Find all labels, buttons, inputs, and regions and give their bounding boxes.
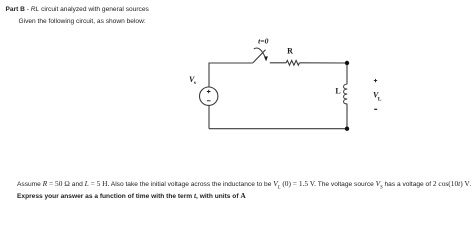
svg-text:L: L — [335, 87, 340, 96]
resistor R — [286, 60, 299, 65]
wire right top segment — [346, 63, 348, 84]
subtitle line — [19, 18, 146, 25]
wire bottom segment — [209, 128, 347, 130]
title line — [6, 6, 149, 13]
inductor L — [344, 84, 348, 104]
node top-right junction — [345, 61, 349, 65]
bottom paragraph line 2 — [17, 191, 246, 200]
svg-text:R: R — [287, 47, 293, 56]
wire left bottom segment — [208, 106, 210, 129]
node bottom-right junction — [345, 127, 349, 131]
wire resistor-to-corner segment — [300, 62, 348, 64]
svg-text:t=0: t=0 — [258, 37, 268, 46]
svg-text:L: L — [378, 97, 382, 103]
label - (VL polarity) — [374, 108, 377, 110]
wire top-left segment — [209, 63, 253, 87]
voltage source Vs — [200, 87, 218, 105]
wire right bottom segment — [346, 104, 348, 129]
bottom paragraph line 1 — [17, 179, 472, 190]
label + (VL polarity) — [374, 79, 377, 82]
switch S (t=0) — [253, 48, 268, 63]
svg-text:s: s — [194, 80, 197, 86]
wire switch-to-resistor segment — [270, 62, 286, 64]
